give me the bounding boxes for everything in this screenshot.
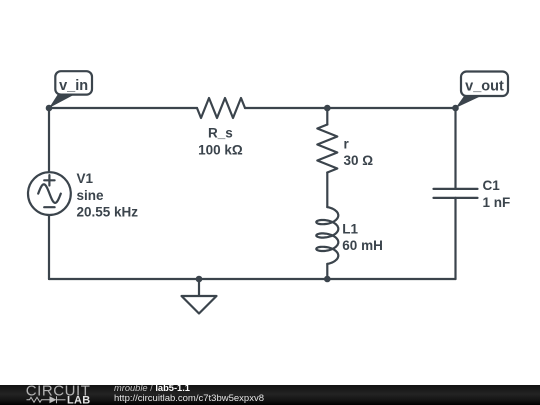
footer bar (0, 385, 540, 405)
logo diode triangle (50, 396, 57, 403)
wire: top rail to resistor r (326, 108, 328, 125)
wire: C1 bottom plate to bottom rail (454, 198, 456, 279)
node dot ground (196, 276, 203, 283)
logo wire art: diode cathode bar + lead (57, 399, 66, 401)
wire: v_in node down to V1 top (48, 108, 50, 172)
flag box v_in (55, 71, 92, 94)
ground triangle (182, 296, 217, 314)
svg-text:LAB: LAB (67, 395, 91, 405)
wire: R_s right lead to v_out node (245, 107, 456, 109)
svg-text:100 kΩ: 100 kΩ (198, 142, 243, 157)
V1 plus sign (44, 175, 54, 185)
svg-text:V1: V1 (77, 171, 94, 186)
resistor r (317, 125, 337, 173)
flag tail v_in (49, 93, 74, 108)
node dot middle bottom (324, 276, 331, 283)
voltage source V1 circle (28, 172, 71, 215)
wire: r to L1 (326, 173, 328, 208)
node dot v_in (46, 105, 53, 112)
svg-text:sine: sine (77, 188, 105, 203)
V1 minus sign (44, 206, 54, 208)
resistor R_s (197, 98, 245, 118)
svg-text:r: r (344, 137, 350, 152)
wire: v_out node down to C1 top plate (454, 108, 456, 189)
svg-text:L1: L1 (342, 221, 358, 236)
wire: L1 to bottom rail (326, 264, 328, 279)
V1 sine wave (38, 184, 61, 203)
svg-text:v_out: v_out (465, 78, 504, 94)
svg-text:R_s: R_s (208, 126, 233, 141)
wire: V1 bottom down to bottom rail (48, 215, 50, 279)
ground stub wire (198, 279, 200, 296)
flag box v_out (461, 72, 508, 97)
inductor L1 coil (316, 207, 338, 264)
node dot middle top (324, 105, 331, 112)
capacitor C1 bottom plate (434, 197, 478, 199)
svg-text:1 nF: 1 nF (483, 195, 511, 210)
capacitor C1 top plate (434, 188, 478, 190)
flag tail v_out (456, 95, 480, 108)
logo wire art: lead + resistor zigzag (27, 396, 66, 403)
svg-text:v_in: v_in (59, 78, 88, 94)
svg-text:20.55 kHz: 20.55 kHz (77, 205, 139, 220)
wire: v_in node to R_s left lead (49, 107, 197, 109)
bottom rail wire (49, 278, 456, 280)
svg-text:C1: C1 (483, 178, 501, 193)
svg-text:60 mH: 60 mH (342, 238, 383, 253)
node dot v_out (452, 105, 459, 112)
svg-text:30 Ω: 30 Ω (344, 153, 374, 168)
svg-text:http://circuitlab.com/c7t3bw5e: http://circuitlab.com/c7t3bw5expxv8 (114, 393, 264, 403)
svg-text:mrouble / lab5-1.1: mrouble / lab5-1.1 (114, 385, 190, 393)
